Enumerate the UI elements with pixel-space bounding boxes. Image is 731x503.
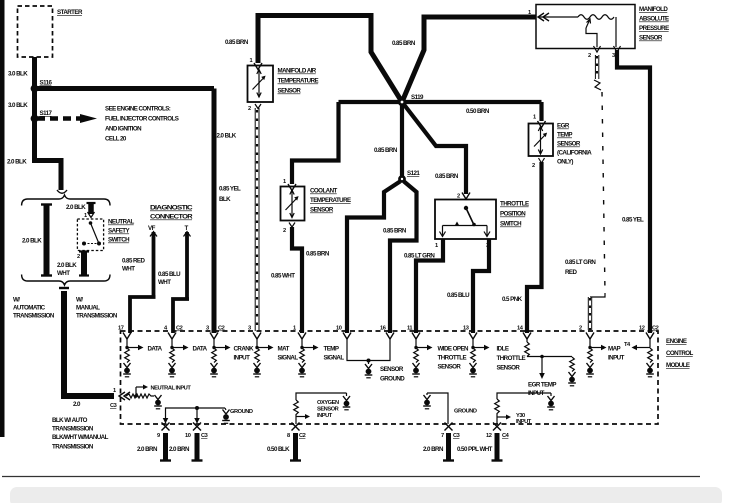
- svg-text:2.0 BLK: 2.0 BLK: [22, 238, 42, 245]
- svg-text:2.0 BLK: 2.0 BLK: [7, 159, 27, 166]
- svg-text:BLK/WHT W/MANUAL: BLK/WHT W/MANUAL: [52, 434, 109, 441]
- svg-text:C2: C2: [652, 326, 659, 332]
- svg-text:SENSOR: SENSOR: [557, 141, 581, 148]
- svg-text:SWITCH: SWITCH: [500, 221, 522, 228]
- svg-text:9: 9: [157, 433, 160, 439]
- svg-text:3.0 BLK: 3.0 BLK: [8, 71, 28, 78]
- svg-text:AUTOMATIC: AUTOMATIC: [13, 305, 46, 312]
- svg-text:MAP: MAP: [608, 346, 621, 353]
- svg-text:WHT: WHT: [122, 266, 135, 273]
- svg-text:S121: S121: [407, 170, 420, 177]
- svg-text:DATA: DATA: [193, 346, 208, 353]
- svg-text:FUEL INJECTOR CONTROLS: FUEL INJECTOR CONTROLS: [105, 116, 179, 123]
- svg-text:W/: W/: [76, 297, 83, 304]
- svg-text:2.0 BRN: 2.0 BRN: [137, 446, 158, 453]
- svg-text:2.0 BRN: 2.0 BRN: [423, 446, 444, 453]
- svg-text:BLK: BLK: [219, 196, 231, 203]
- svg-text:MANIFOLD AIR: MANIFOLD AIR: [278, 68, 317, 75]
- svg-text:CRANK: CRANK: [234, 346, 255, 353]
- svg-text:EGR: EGR: [557, 123, 570, 130]
- svg-text:0.85 BRN: 0.85 BRN: [435, 173, 459, 180]
- svg-text:GROUND: GROUND: [380, 376, 405, 383]
- svg-text:NEUTRAL INPUT: NEUTRAL INPUT: [151, 386, 192, 392]
- svg-text:TRANSMISSION: TRANSMISSION: [52, 444, 94, 451]
- svg-text:0.85 YEL: 0.85 YEL: [622, 217, 644, 224]
- svg-text:C3: C3: [110, 403, 117, 409]
- svg-text:3: 3: [612, 53, 615, 59]
- svg-text:DIAGNOSTIC: DIAGNOSTIC: [150, 205, 193, 212]
- svg-text:ONLY): ONLY): [557, 159, 573, 166]
- svg-text:10: 10: [185, 433, 191, 439]
- svg-text:0.50 BRN: 0.50 BRN: [466, 108, 490, 115]
- svg-text:1: 1: [283, 179, 286, 185]
- svg-text:INPUT: INPUT: [608, 355, 625, 362]
- svg-text:SAFETY: SAFETY: [108, 228, 131, 235]
- svg-text:0.85 BRN: 0.85 BRN: [374, 147, 398, 154]
- svg-text:TEMPERATURE: TEMPERATURE: [310, 197, 351, 204]
- svg-text:12: 12: [639, 326, 645, 332]
- svg-text:S119: S119: [411, 94, 424, 101]
- svg-text:COOLANT: COOLANT: [310, 188, 338, 195]
- svg-text:2: 2: [588, 53, 591, 59]
- svg-text:TRANSMISSION: TRANSMISSION: [52, 426, 94, 433]
- svg-text:WIDE OPEN: WIDE OPEN: [438, 346, 470, 353]
- svg-text:S117: S117: [40, 110, 53, 117]
- svg-text:INPUT: INPUT: [516, 419, 532, 425]
- svg-text:1: 1: [435, 243, 438, 249]
- svg-text:SIGNAL: SIGNAL: [278, 355, 299, 362]
- svg-text:MANIFOLD: MANIFOLD: [639, 6, 668, 13]
- svg-text:GROUND: GROUND: [230, 409, 253, 415]
- svg-text:SENSOR: SENSOR: [497, 365, 521, 372]
- svg-text:MODULE: MODULE: [666, 362, 690, 369]
- svg-text:PRESSURE: PRESSURE: [639, 25, 669, 32]
- svg-text:0.50 BLK: 0.50 BLK: [267, 446, 290, 453]
- svg-text:T: T: [185, 225, 189, 232]
- svg-text:2: 2: [579, 326, 582, 332]
- svg-text:12: 12: [486, 433, 492, 439]
- svg-text:(CALIFORNIA: (CALIFORNIA: [557, 150, 592, 157]
- svg-text:2.0 BLK: 2.0 BLK: [217, 133, 237, 140]
- svg-text:0.5 PNK: 0.5 PNK: [502, 296, 523, 303]
- svg-text:VF: VF: [148, 225, 156, 232]
- svg-text:1: 1: [293, 326, 296, 332]
- svg-text:DATA: DATA: [148, 346, 163, 353]
- svg-text:SENSOR: SENSOR: [317, 407, 339, 413]
- svg-text:0.85 BRN: 0.85 BRN: [306, 251, 330, 258]
- svg-text:0.85 LT GRN: 0.85 LT GRN: [565, 259, 596, 266]
- svg-text:2.0 BLK: 2.0 BLK: [57, 262, 77, 269]
- svg-text:0.85 BRN: 0.85 BRN: [383, 228, 407, 235]
- svg-text:1: 1: [113, 388, 116, 394]
- svg-text:2.0 BRN: 2.0 BRN: [169, 446, 190, 453]
- svg-text:3: 3: [206, 326, 209, 332]
- svg-text:0.85 YEL: 0.85 YEL: [219, 186, 241, 193]
- svg-text:13: 13: [463, 326, 469, 332]
- svg-text:1: 1: [528, 10, 531, 16]
- svg-text:S116: S116: [40, 80, 53, 87]
- svg-text:0.50 PPL WHT: 0.50 PPL WHT: [457, 446, 493, 453]
- svg-text:CELL 20: CELL 20: [105, 136, 127, 143]
- svg-text:POSITION: POSITION: [500, 211, 526, 218]
- svg-text:SWITCH: SWITCH: [108, 237, 130, 244]
- svg-text:0.85 BLU: 0.85 BLU: [158, 271, 181, 278]
- svg-text:1: 1: [84, 213, 87, 219]
- svg-text:IDLE: IDLE: [497, 346, 509, 353]
- svg-text:2.0: 2.0: [73, 401, 81, 408]
- svg-text:0.85 BRN: 0.85 BRN: [225, 39, 249, 46]
- svg-text:SENSOR: SENSOR: [278, 88, 302, 95]
- svg-text:BLK W/ AUTO: BLK W/ AUTO: [52, 417, 88, 424]
- svg-text:3.0 BLK: 3.0 BLK: [8, 102, 28, 109]
- svg-text:MAT: MAT: [278, 346, 290, 353]
- svg-text:TEMP: TEMP: [324, 346, 339, 353]
- svg-text:7: 7: [441, 433, 444, 439]
- svg-text:CONNECTOR: CONNECTOR: [150, 214, 193, 221]
- svg-text:INPUT: INPUT: [234, 355, 251, 362]
- svg-text:TEMPERATURE: TEMPERATURE: [278, 78, 319, 85]
- svg-text:3: 3: [248, 326, 251, 332]
- svg-text:2: 2: [248, 106, 251, 112]
- svg-text:SENSOR: SENSOR: [639, 35, 663, 42]
- svg-text:SENSOR: SENSOR: [380, 366, 404, 373]
- svg-text:WHT: WHT: [57, 270, 70, 277]
- svg-text:SEE ENGINE CONTROLS:: SEE ENGINE CONTROLS:: [105, 106, 171, 113]
- svg-text:GROUND: GROUND: [454, 409, 477, 415]
- svg-text:INPUT: INPUT: [317, 413, 333, 419]
- svg-text:W/: W/: [13, 297, 20, 304]
- svg-text:CONTROL: CONTROL: [666, 350, 694, 357]
- svg-text:0.85 BRN: 0.85 BRN: [392, 40, 416, 47]
- svg-text:THROTTLE: THROTTLE: [497, 355, 526, 362]
- svg-text:2: 2: [77, 254, 80, 260]
- svg-text:RED: RED: [565, 269, 577, 276]
- svg-text:0.85 LT GRN: 0.85 LT GRN: [404, 253, 435, 260]
- svg-text:WHT: WHT: [158, 279, 171, 286]
- svg-text:AND IGNITION: AND IGNITION: [105, 126, 142, 133]
- svg-text:SIGNAL: SIGNAL: [324, 355, 345, 362]
- svg-text:0.85 BLU: 0.85 BLU: [447, 292, 470, 299]
- svg-text:C3: C3: [201, 433, 208, 439]
- svg-text:EGR TEMP: EGR TEMP: [528, 382, 556, 389]
- svg-text:2: 2: [283, 228, 286, 234]
- svg-text:TRANSMISSION: TRANSMISSION: [76, 313, 118, 320]
- svg-text:17: 17: [118, 326, 124, 332]
- svg-text:C2: C2: [299, 433, 306, 439]
- svg-text:SENSOR: SENSOR: [310, 207, 334, 214]
- svg-text:MANUAL: MANUAL: [76, 305, 100, 312]
- svg-text:C2: C2: [218, 326, 225, 332]
- svg-text:OXYGEN: OXYGEN: [317, 400, 339, 406]
- svg-text:11: 11: [407, 326, 412, 332]
- svg-text:THROTTLE: THROTTLE: [500, 201, 529, 208]
- svg-text:T4: T4: [624, 342, 631, 348]
- svg-text:NEUTRAL: NEUTRAL: [108, 219, 134, 226]
- svg-text:1: 1: [250, 58, 253, 64]
- svg-text:8: 8: [287, 433, 290, 439]
- svg-text:SENSOR: SENSOR: [438, 364, 462, 371]
- svg-text:TEMP: TEMP: [557, 132, 572, 139]
- svg-text:STARTER: STARTER: [57, 9, 83, 16]
- svg-text:2: 2: [532, 163, 535, 169]
- svg-text:C3: C3: [453, 433, 460, 439]
- svg-text:0.85 WHT: 0.85 WHT: [271, 273, 295, 280]
- svg-text:C4: C4: [502, 433, 510, 439]
- svg-text:10: 10: [336, 326, 342, 332]
- svg-text:TRANSMISSION: TRANSMISSION: [13, 313, 55, 320]
- svg-text:2.0 BLK: 2.0 BLK: [66, 204, 86, 211]
- svg-text:0.85 RED: 0.85 RED: [122, 258, 146, 265]
- svg-text:THROTTLE: THROTTLE: [438, 355, 467, 362]
- svg-text:ENGINE: ENGINE: [666, 338, 687, 345]
- svg-text:ABSOLUTE: ABSOLUTE: [639, 16, 669, 23]
- svg-text:16: 16: [380, 326, 386, 332]
- svg-text:1: 1: [533, 115, 536, 121]
- svg-text:C2: C2: [176, 326, 183, 332]
